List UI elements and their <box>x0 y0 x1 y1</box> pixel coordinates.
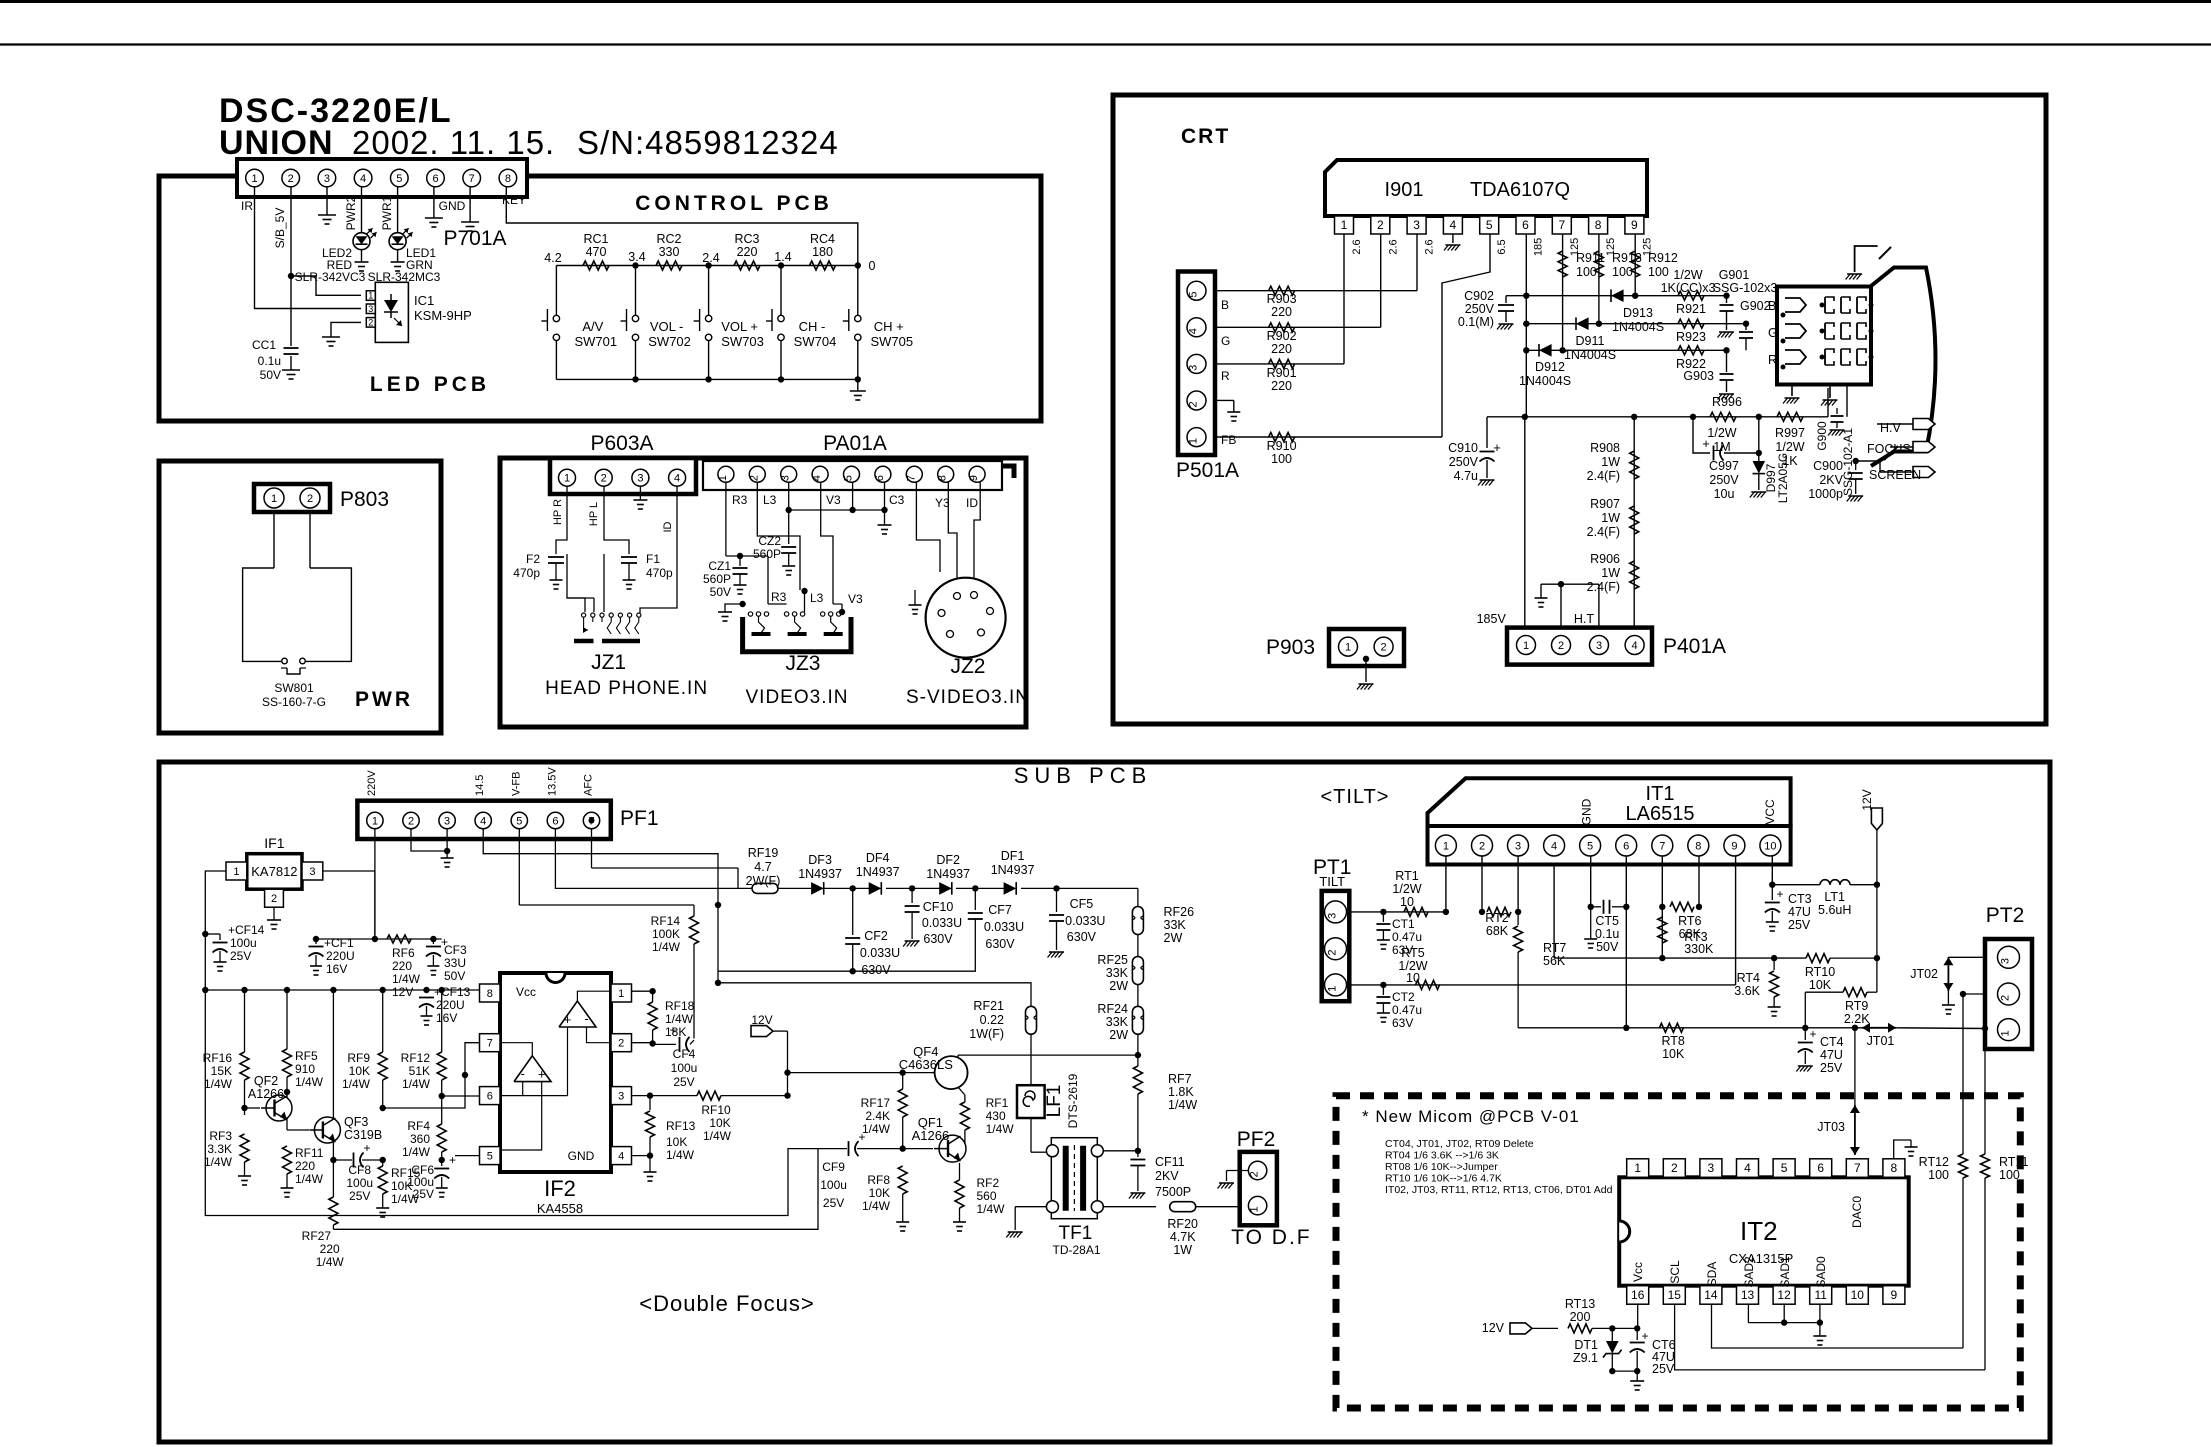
svg-text:1000p: 1000p <box>1808 487 1843 501</box>
IF2 opamp triangle 1 <box>559 1001 596 1027</box>
svg-text:5: 5 <box>1486 218 1493 232</box>
svg-text:2KV: 2KV <box>1819 473 1843 487</box>
ground pin6 <box>425 217 443 219</box>
terminal H.V <box>1877 423 1913 425</box>
jumper JT01 <box>1862 1027 1896 1029</box>
resistor R921 <box>1678 291 1704 300</box>
wire rail B <box>333 1149 818 1230</box>
node vcc <box>284 987 290 993</box>
I901 pin 2 <box>1371 216 1390 234</box>
capacitor CT4 <box>1804 1028 1806 1040</box>
pin 7 P701A <box>463 169 481 187</box>
svg-text:SW801: SW801 <box>274 681 314 695</box>
node RF24 <box>1135 1052 1141 1058</box>
wire pin1 IR to IC1 pin3 <box>255 187 362 309</box>
resistor RT9 <box>1843 988 1867 997</box>
svg-text:D912: D912 <box>1535 360 1565 374</box>
svg-text:25V: 25V <box>349 1189 370 1203</box>
wire QF4 base row <box>788 1072 939 1074</box>
wire QF2 collector <box>286 1092 288 1098</box>
pin 2 PF1 <box>403 812 419 828</box>
wire TF1 bottom right RF20 <box>1103 1206 1156 1208</box>
svg-text:RF11: RF11 <box>295 1146 324 1160</box>
pin 5 PA01A <box>844 466 860 482</box>
svg-text:PF1: PF1 <box>620 807 659 830</box>
wire RF25 RF24 <box>1137 985 1139 1007</box>
IT2 pin 5 <box>1773 1159 1795 1178</box>
wire IT2 pin15 route <box>1675 1304 1985 1370</box>
svg-text:15: 15 <box>1668 1288 1682 1302</box>
svg-text:V3: V3 <box>848 592 863 606</box>
svg-text:10K: 10K <box>666 1135 687 1149</box>
svg-text:470p: 470p <box>513 566 540 580</box>
AV board outline <box>500 458 1026 727</box>
svg-text:SS-160-7-G: SS-160-7-G <box>262 695 326 709</box>
svg-text:1K(CC)x3: 1K(CC)x3 <box>1661 281 1716 295</box>
svg-text:630V: 630V <box>1067 930 1097 944</box>
node RF17 top <box>900 1069 906 1075</box>
wire PF1 pin6 down <box>555 829 738 889</box>
svg-text:14: 14 <box>1704 1288 1718 1302</box>
wire pin7 <box>916 482 940 572</box>
svg-text:TD-28A1: TD-28A1 <box>1052 1243 1100 1257</box>
svg-text:1N4937: 1N4937 <box>856 865 900 879</box>
svg-text:C910: C910 <box>1448 441 1478 455</box>
wire DF3 DF4 <box>824 887 878 889</box>
resistor RF2 <box>955 1180 964 1208</box>
svg-text:7: 7 <box>1659 840 1665 852</box>
svg-text:VOL -: VOL - <box>650 319 683 334</box>
resistor R996 <box>1710 412 1736 421</box>
svg-text:RC2: RC2 <box>656 232 681 246</box>
svg-text:3: 3 <box>1188 365 1200 371</box>
IF1 pin3 <box>302 862 323 880</box>
svg-text:0.1u: 0.1u <box>258 354 281 368</box>
resistor R922 <box>1678 346 1704 355</box>
ground F1 <box>623 579 636 581</box>
wire pin3 gnd <box>326 187 328 215</box>
opamp IF2 body <box>500 973 611 1172</box>
svg-text:3.6K: 3.6K <box>1734 984 1760 998</box>
resistor R907 <box>1630 506 1639 534</box>
ground F2 <box>550 579 563 581</box>
svg-text:7: 7 <box>905 475 917 481</box>
pin 5 IT1 <box>1580 835 1601 856</box>
svg-text:CONTROL PCB: CONTROL PCB <box>635 192 833 215</box>
switch SW703 <box>708 266 710 316</box>
svg-text:TF1: TF1 <box>1059 1223 1093 1244</box>
node CT6 <box>1634 1325 1640 1331</box>
svg-text:RC4: RC4 <box>810 232 835 246</box>
svg-text:V3: V3 <box>826 493 841 507</box>
wire PA01A pin2 L3 <box>757 482 800 590</box>
switch SW702 <box>635 266 637 316</box>
switch SW705 <box>857 266 859 316</box>
wire PT2 pin3 <box>1948 956 1985 958</box>
resistor R912 <box>1631 251 1640 277</box>
wire QF4 emitter RF1 <box>958 1087 965 1095</box>
node RT4 top <box>1771 955 1777 961</box>
svg-text:8: 8 <box>1595 218 1602 232</box>
capacitor CF7 <box>974 888 976 910</box>
LED LED1 <box>397 187 399 233</box>
svg-text:51K: 51K <box>409 1064 430 1078</box>
svg-text:1: 1 <box>618 988 624 1000</box>
wire pin4 V3 <box>821 482 833 604</box>
svg-text:+: + <box>538 1067 546 1082</box>
pin 4 PF1 <box>475 812 491 828</box>
inductor LT1 <box>1820 880 1830 885</box>
svg-text:5: 5 <box>1781 1161 1788 1175</box>
svg-text:RF21: RF21 <box>973 999 1004 1013</box>
svg-text:6: 6 <box>552 815 558 827</box>
svg-text:1/4W: 1/4W <box>204 1077 233 1091</box>
resistor RF11 <box>286 1130 288 1145</box>
svg-text:10: 10 <box>1406 971 1420 985</box>
pin 1 P401A <box>1517 636 1536 655</box>
node CT1 <box>1380 909 1386 915</box>
node pin2 junction <box>288 273 294 279</box>
svg-text:2: 2 <box>288 173 294 185</box>
IT2 pin 4 <box>1737 1159 1759 1178</box>
wire pin5 <box>852 482 854 510</box>
IF2 opamp triangle 2 <box>514 1056 551 1082</box>
node CF13 <box>423 987 429 993</box>
resistor R923 <box>1678 319 1704 328</box>
IT2 pin 9 <box>1883 1286 1905 1305</box>
svg-text:2002. 11. 15.: 2002. 11. 15. <box>352 124 555 161</box>
svg-text:CF7: CF7 <box>988 903 1012 917</box>
node CF3 <box>430 936 436 942</box>
node 185V <box>1522 414 1528 420</box>
pin 7 PA01A <box>906 466 922 482</box>
svg-text:RT11: RT11 <box>1999 1155 2028 1169</box>
wire PF1 pin7 down <box>591 829 593 868</box>
svg-text:13: 13 <box>1741 1288 1755 1302</box>
svg-text:2W: 2W <box>1109 979 1128 993</box>
wire IF1 pin3 right <box>323 870 375 872</box>
wire TF1 bottom left gnd <box>1015 1206 1046 1208</box>
svg-text:7500P: 7500P <box>1155 1185 1191 1199</box>
svg-text:LF1: LF1 <box>1044 1085 1065 1118</box>
svg-text:330: 330 <box>659 245 680 259</box>
resistor R913 <box>1594 251 1603 277</box>
CRT bell <box>1871 268 1936 467</box>
wire P401A pin2 gnd <box>1560 584 1562 627</box>
svg-text:1/2W: 1/2W <box>1707 426 1736 440</box>
svg-text:RF20: RF20 <box>1167 1217 1198 1231</box>
svg-text:0.033U: 0.033U <box>922 916 962 930</box>
regulator IF1 body <box>247 854 302 890</box>
svg-text:1N4004S: 1N4004S <box>1612 320 1664 334</box>
wire pin7 down <box>1661 856 1663 958</box>
svg-text:220: 220 <box>737 245 758 259</box>
svg-text:R912: R912 <box>1648 251 1678 265</box>
svg-text:KA4558: KA4558 <box>537 1201 583 1216</box>
diode D913 <box>1611 289 1624 302</box>
IC I901 body <box>1325 160 1647 216</box>
svg-text:1/4W: 1/4W <box>986 1122 1015 1136</box>
transformer TF1 <box>1051 1138 1097 1219</box>
pin 2 P501A <box>1187 391 1206 410</box>
node C997 <box>1756 450 1762 456</box>
svg-text:P501A: P501A <box>1176 459 1239 482</box>
svg-text:LED PCB: LED PCB <box>370 373 490 396</box>
pin 6 PA01A <box>875 466 891 482</box>
pin 3 P401A <box>1590 636 1609 655</box>
svg-text:B: B <box>1221 298 1229 312</box>
svg-text:2.6: 2.6 <box>1424 239 1436 254</box>
pin 5 P701A <box>391 169 409 187</box>
svg-text:R997: R997 <box>1775 426 1805 440</box>
svg-text:+CF14: +CF14 <box>228 923 265 937</box>
svg-text:2: 2 <box>1249 1171 1261 1177</box>
svg-text:13.5V: 13.5V <box>546 767 558 796</box>
svg-text:1: 1 <box>1327 986 1339 992</box>
svg-text:TO D.F: TO D.F <box>1231 1226 1311 1249</box>
svg-text:0.47u: 0.47u <box>1392 930 1422 944</box>
pin 4 PA01A <box>812 466 828 482</box>
svg-text:100: 100 <box>1576 265 1597 279</box>
wire 12V vertical <box>1876 830 1878 885</box>
wire DF2 DF1 <box>956 887 1013 889</box>
svg-text:5: 5 <box>487 1150 493 1162</box>
wire IF2 pin1 <box>632 990 653 992</box>
New Micom dashed box <box>1336 1096 2020 1408</box>
wire R3 branch <box>726 555 768 557</box>
svg-text:12: 12 <box>1777 1288 1791 1302</box>
wire JZ3 gnd <box>725 604 743 612</box>
svg-text:RF17: RF17 <box>861 1096 891 1110</box>
svg-text:CZ1: CZ1 <box>708 559 731 573</box>
resistor RF13 <box>649 1096 651 1110</box>
svg-text:47U: 47U <box>1788 905 1811 919</box>
capacitor C902 <box>1505 296 1507 303</box>
svg-text:G: G <box>1221 334 1230 348</box>
CRT socket gnd <box>1829 384 1831 398</box>
svg-text:A1266: A1266 <box>912 1128 950 1143</box>
node pin6 R <box>1523 347 1529 353</box>
wire QF4 collector <box>957 1055 959 1058</box>
svg-text:1: 1 <box>1249 1206 1261 1212</box>
wire PA01A pin1 R3 <box>725 482 727 556</box>
svg-text:R921: R921 <box>1676 302 1706 316</box>
resistor RT10 <box>1806 954 1830 963</box>
pin 4 P501A <box>1187 318 1206 337</box>
connector P401A outline <box>1507 628 1652 665</box>
svg-text:5: 5 <box>396 173 402 185</box>
svg-text:I901: I901 <box>1385 179 1424 201</box>
ground pin3 <box>318 214 336 216</box>
pin 2 PF2 <box>1248 1161 1266 1179</box>
svg-text:RT12: RT12 <box>1919 1155 1949 1169</box>
svg-text:RT4: RT4 <box>1737 971 1760 985</box>
node G901 B <box>1723 293 1729 299</box>
svg-text:2: 2 <box>748 475 760 481</box>
svg-text:R: R <box>1221 369 1230 383</box>
svg-text:UNION: UNION <box>219 124 334 162</box>
svg-text:25V: 25V <box>673 1075 694 1089</box>
svg-text:470p: 470p <box>646 566 673 580</box>
svg-text:100u: 100u <box>671 1061 698 1075</box>
svg-text:3: 3 <box>1515 840 1521 852</box>
svg-text:SUB PCB: SUB PCB <box>1014 763 1153 788</box>
svg-text:SCL: SCL <box>1668 1260 1682 1284</box>
svg-text:+: + <box>1809 1027 1816 1041</box>
svg-text:S/N:4859812324: S/N:4859812324 <box>577 124 839 161</box>
node <box>705 262 711 268</box>
capacitor G903 <box>1726 350 1728 372</box>
resistor RT8 <box>1659 1023 1683 1032</box>
svg-text:16V: 16V <box>326 962 347 976</box>
svg-text:0: 0 <box>869 259 876 273</box>
jack JZ3 bracket <box>743 617 851 652</box>
svg-text:R3: R3 <box>732 493 748 507</box>
wire pin6 gnd <box>433 187 435 218</box>
wire pin7 vertical <box>1562 234 1564 350</box>
ground IC1 <box>322 336 340 338</box>
svg-text:6: 6 <box>1623 840 1629 852</box>
svg-text:V-FB: V-FB <box>510 772 522 796</box>
svg-text:9: 9 <box>968 475 980 481</box>
svg-text:910: 910 <box>295 1062 315 1076</box>
svg-text:-: - <box>521 1066 525 1081</box>
wire resistor row <box>556 265 857 267</box>
pin 4 P701A <box>354 169 372 187</box>
svg-text:25V: 25V <box>1652 1362 1675 1376</box>
svg-text:0.1u: 0.1u <box>1595 927 1619 941</box>
svg-text:10K: 10K <box>349 1064 370 1078</box>
svg-text:220U: 220U <box>326 949 355 963</box>
svg-text:10K: 10K <box>709 1116 730 1130</box>
wire IT2 pin8 gnd <box>1894 1140 1911 1159</box>
diode DF4 <box>869 882 882 895</box>
wire pin6 C3 <box>884 482 886 510</box>
wire PT1 pin1 row <box>1349 984 1735 986</box>
svg-text:RF5: RF5 <box>295 1049 318 1063</box>
capacitor C910 <box>1486 417 1488 448</box>
wire RF21 LF1 <box>1030 1034 1032 1085</box>
pin 5 P501A <box>1187 281 1206 300</box>
svg-text:CH +: CH + <box>874 319 904 334</box>
svg-text:6: 6 <box>487 1090 493 1102</box>
pin 9 IT1 <box>1724 835 1745 856</box>
svg-text:KA7812: KA7812 <box>251 864 297 879</box>
capacitor CT2 <box>1382 985 1384 995</box>
svg-text:250V: 250V <box>1449 455 1479 469</box>
svg-text:Z9.1: Z9.1 <box>1573 1351 1598 1365</box>
svg-text:P603A: P603A <box>590 432 653 455</box>
svg-text:2.4(F): 2.4(F) <box>1587 469 1620 483</box>
svg-text:4.2: 4.2 <box>544 251 561 265</box>
node <box>855 262 861 268</box>
svg-text:SAD0: SAD0 <box>1814 1256 1828 1288</box>
wire B row right <box>1506 295 1727 297</box>
svg-text:PWR1: PWR1 <box>380 195 394 230</box>
svg-text:9: 9 <box>1631 218 1638 232</box>
wire HP R <box>556 486 567 554</box>
node R chain top <box>1631 414 1637 420</box>
svg-text:LA6515: LA6515 <box>1626 803 1695 825</box>
resistor RT13 <box>1568 1324 1592 1333</box>
svg-text:SAD1: SAD1 <box>1778 1256 1792 1288</box>
svg-text:1/2W: 1/2W <box>1775 440 1804 454</box>
svg-text:RF7: RF7 <box>1168 1072 1192 1086</box>
wire DF4 DF2 <box>886 887 948 889</box>
IT2 pin 14 <box>1700 1286 1722 1305</box>
svg-text:DF1: DF1 <box>1001 849 1025 863</box>
svg-text:1/4W: 1/4W <box>862 1199 891 1213</box>
svg-text:F2: F2 <box>526 552 540 566</box>
svg-text:2.6: 2.6 <box>1351 239 1363 254</box>
svg-text:3: 3 <box>1596 640 1602 652</box>
svg-text:220: 220 <box>1271 305 1292 319</box>
svg-text:RT10 1/6 10K-->1/6 4.7K: RT10 1/6 10K-->1/6 4.7K <box>1385 1173 1502 1185</box>
svg-text:RT10: RT10 <box>1805 965 1835 979</box>
capacitor C997 loop <box>1693 417 1710 453</box>
node R996 left <box>1690 414 1696 420</box>
svg-text:1W: 1W <box>1601 511 1620 525</box>
svg-text:2: 2 <box>368 318 373 328</box>
svg-text:JZ1: JZ1 <box>591 651 626 674</box>
IT2 pin 1 <box>1627 1159 1649 1178</box>
svg-text:10u: 10u <box>1714 487 1735 501</box>
node QF3 emitter <box>330 1157 336 1163</box>
svg-text:1: 1 <box>372 815 378 827</box>
svg-text:SSG-102x3: SSG-102x3 <box>1713 281 1778 295</box>
svg-text:360: 360 <box>410 1132 430 1146</box>
transistor QF1 A1266 <box>939 1135 966 1162</box>
inductor LF1 box <box>1017 1085 1045 1118</box>
svg-text:2: 2 <box>271 893 277 905</box>
capacitor CF6 <box>441 1160 443 1166</box>
wire pin8 vertical <box>1598 234 1600 324</box>
ground CC1 <box>282 369 300 371</box>
svg-text:0.033U: 0.033U <box>984 920 1024 934</box>
resistor RT4 <box>1773 958 1775 970</box>
resistor RF1 <box>960 1102 969 1130</box>
wire QF1 emitter <box>959 1163 961 1180</box>
svg-text:C900: C900 <box>1813 459 1843 473</box>
wire PF2 pin2 gnd <box>1227 1170 1249 1172</box>
svg-text:VCC: VCC <box>1763 799 1777 825</box>
terminal 12V TILT <box>1871 808 1882 830</box>
svg-text:KSM-9HP: KSM-9HP <box>414 308 472 323</box>
svg-text:7: 7 <box>487 1038 493 1050</box>
pin 2 PA01A <box>749 466 765 482</box>
resistor RF5 <box>286 990 288 1049</box>
svg-text:7: 7 <box>1854 1161 1861 1175</box>
wire JZ3 top links <box>768 603 787 605</box>
pin 4 IT1 <box>1544 835 1565 856</box>
svg-text:560: 560 <box>977 1189 997 1203</box>
wire PF1 pin4 down <box>483 829 718 905</box>
svg-text:R923: R923 <box>1676 330 1706 344</box>
svg-text:A/V: A/V <box>582 319 603 334</box>
connector P803 outline <box>254 484 330 512</box>
wire pin7 to rail <box>452 1052 465 1075</box>
capacitor CF3 <box>432 939 434 944</box>
node pin6 G <box>1523 321 1529 327</box>
IF2 pin6 <box>480 1087 501 1105</box>
I901 pin 7 <box>1552 216 1571 234</box>
svg-text:100u: 100u <box>230 936 257 950</box>
svg-text:560P: 560P <box>703 572 731 586</box>
IF2 pin8 <box>480 984 501 1002</box>
jack JZ3 cells <box>748 612 752 616</box>
wire IF2 pin3 <box>632 1095 698 1097</box>
svg-text:1/4W: 1/4W <box>342 1077 371 1091</box>
